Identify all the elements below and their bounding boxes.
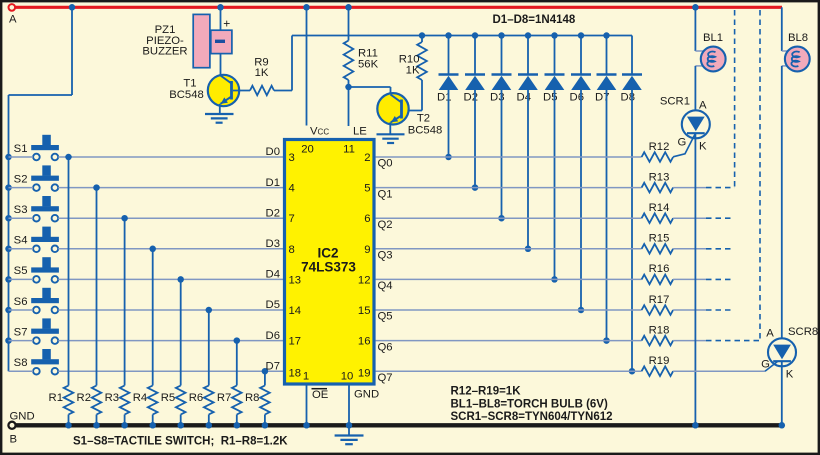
svg-text:VCC: VCC bbox=[310, 126, 329, 138]
svg-text:D5: D5 bbox=[266, 299, 280, 311]
wire buzzer to T1 collector bbox=[220, 54, 222, 75]
svg-text:S1: S1 bbox=[14, 143, 28, 155]
wire bus to D4 bbox=[527, 36, 529, 75]
svg-text:6: 6 bbox=[364, 213, 370, 225]
wire S3 to R3 bbox=[124, 218, 126, 385]
IC2 74LS373 body bbox=[285, 140, 375, 385]
junction S3 pull-down bbox=[121, 215, 128, 222]
wire Q1 to R13 bbox=[376, 187, 642, 189]
svg-text:D1–D8=1N4148: D1–D8=1N4148 bbox=[493, 14, 576, 26]
wire node to T2 collector bbox=[349, 86, 391, 88]
wire bus to D1 bbox=[448, 36, 450, 75]
junction S1 pull-down bbox=[65, 154, 72, 161]
resistor R5 bbox=[176, 386, 186, 415]
svg-text:D3: D3 bbox=[266, 238, 280, 250]
switch S1 bbox=[42, 135, 51, 145]
svg-text:BC548: BC548 bbox=[408, 124, 443, 136]
wire common to S1 bbox=[9, 156, 34, 158]
svg-text:S1–S8=TACTILE SWITCH; R1–R8=1: S1–S8=TACTILE SWITCH; R1–R8=1.2K bbox=[73, 435, 288, 447]
junction D4 anode bbox=[525, 32, 532, 39]
wire bus to D5 bbox=[554, 36, 556, 75]
svg-text:Q1: Q1 bbox=[378, 188, 393, 200]
svg-text:R15: R15 bbox=[649, 233, 670, 245]
svg-text:1K: 1K bbox=[255, 67, 269, 79]
wire R1 to ground bus bbox=[68, 415, 70, 426]
junction switch common row 2 bbox=[5, 184, 12, 191]
wire S8 to R8 bbox=[264, 371, 266, 385]
wire S5 to D4 pin bbox=[58, 278, 283, 280]
svg-text:19: 19 bbox=[358, 368, 371, 380]
wire rail to Vcc pin bbox=[306, 7, 308, 125]
svg-text:9: 9 bbox=[364, 244, 370, 256]
ground IC2 bbox=[348, 425, 350, 435]
resistor R6 bbox=[204, 386, 214, 415]
junction D2 row bbox=[472, 184, 479, 191]
svg-text:BC548: BC548 bbox=[169, 89, 204, 101]
wire R8 to ground bus bbox=[264, 415, 266, 426]
svg-text:IC2: IC2 bbox=[317, 246, 338, 261]
resistor R12 bbox=[642, 152, 674, 162]
wire R5 to ground bus bbox=[180, 415, 182, 426]
wire R4 to ground bus bbox=[152, 415, 154, 426]
wire S6 to D5 pin bbox=[58, 309, 283, 311]
resistor R14 bbox=[642, 213, 674, 223]
svg-text:SCR1: SCR1 bbox=[660, 96, 690, 108]
resistor R8 bbox=[260, 386, 270, 415]
switch S6 bbox=[42, 288, 51, 298]
wire A-rail to switch common bbox=[71, 7, 73, 95]
switch S7 bbox=[42, 318, 51, 328]
wire bus to D6 bbox=[580, 36, 582, 75]
svg-text:Q5: Q5 bbox=[378, 311, 393, 323]
diode D3 bbox=[492, 73, 512, 75]
resistor R10 bbox=[417, 42, 427, 80]
wire Q6 to R18 bbox=[376, 340, 642, 342]
junction switch common row 6 bbox=[5, 307, 12, 314]
wire GND pin to ground bus bbox=[348, 384, 350, 425]
wire R2 to ground bus bbox=[96, 415, 98, 426]
svg-text:11: 11 bbox=[343, 143, 355, 155]
SCR8 bbox=[768, 338, 796, 366]
svg-text:Q3: Q3 bbox=[378, 250, 393, 262]
diode D2 bbox=[465, 73, 485, 75]
wire S5 to R5 bbox=[180, 279, 182, 385]
wire T2 emitter to ground bbox=[389, 122, 391, 134]
junction D6 row bbox=[578, 307, 585, 314]
svg-text:S3: S3 bbox=[14, 204, 28, 216]
dashed column BL7 bbox=[759, 10, 761, 341]
transistor T2 bbox=[377, 93, 408, 124]
svg-text:13: 13 bbox=[289, 274, 302, 286]
resistor R1 bbox=[64, 386, 74, 415]
wire R14 stub bbox=[673, 217, 706, 219]
wire D4 to Q3 row bbox=[527, 90, 529, 249]
wire R7 to ground bus bbox=[236, 415, 238, 426]
svg-text:Q6: Q6 bbox=[378, 341, 393, 353]
wire common to S4 bbox=[9, 248, 34, 250]
wire S3 to D2 pin bbox=[58, 217, 283, 219]
wire S4 to D3 pin bbox=[58, 248, 283, 250]
ground T2 bbox=[377, 133, 405, 135]
svg-text:1: 1 bbox=[303, 371, 309, 383]
junction S4 pull-down bbox=[149, 246, 156, 253]
wire Q5 to R17 bbox=[376, 309, 642, 311]
switch S5 bbox=[42, 257, 51, 267]
wire R18 stub bbox=[673, 340, 706, 342]
diode D1 bbox=[439, 73, 459, 75]
resistor R13 bbox=[642, 183, 674, 193]
svg-text:BUZZER: BUZZER bbox=[142, 46, 187, 58]
svg-text:SCR8: SCR8 bbox=[788, 326, 818, 338]
SCR1 bbox=[682, 110, 710, 138]
wire common to S7 bbox=[9, 340, 34, 342]
junction D7 anode bbox=[603, 32, 610, 39]
wire R17 stub bbox=[673, 309, 706, 311]
wire Q3 to R15 bbox=[376, 248, 642, 250]
svg-text:17: 17 bbox=[289, 336, 302, 348]
diode anode bus bbox=[292, 35, 632, 37]
svg-text:14: 14 bbox=[289, 305, 302, 317]
junction S6 pull-down bbox=[206, 307, 213, 314]
diode D4 bbox=[518, 73, 538, 75]
buzzer PZ1 bbox=[193, 14, 210, 67]
wire D6 to Q5 row bbox=[580, 90, 582, 310]
wire SCR1 gate bbox=[673, 134, 695, 157]
junction D4 row bbox=[525, 246, 532, 253]
svg-text:D0: D0 bbox=[266, 146, 280, 158]
svg-text:S6: S6 bbox=[14, 296, 28, 308]
svg-text:D2: D2 bbox=[266, 207, 280, 219]
transistor T1 bbox=[208, 75, 239, 106]
wire bus to D2 bbox=[474, 36, 476, 75]
wire S2 to R2 bbox=[96, 188, 98, 386]
wire T1 base to R9 bbox=[233, 90, 250, 92]
svg-text:7: 7 bbox=[289, 213, 295, 225]
wire BL8 to SCR8 bbox=[781, 66, 783, 345]
resistor R2 bbox=[92, 386, 102, 415]
wire common to S5 bbox=[9, 278, 34, 280]
junction D5 anode bbox=[551, 32, 558, 39]
svg-text:3: 3 bbox=[289, 152, 295, 164]
svg-text:+: + bbox=[223, 16, 230, 30]
wire D7 to Q6 row bbox=[606, 90, 608, 341]
ground bus (black) bbox=[14, 423, 783, 427]
wire common to S8 bbox=[9, 370, 34, 372]
switch S8 bbox=[42, 349, 51, 359]
wire T1 emitter to ground bbox=[219, 104, 221, 114]
wire rail to BL1 bbox=[694, 7, 696, 51]
svg-text:15: 15 bbox=[358, 305, 371, 317]
junction D3 row bbox=[498, 215, 505, 222]
junction switch common row 3 bbox=[5, 215, 12, 222]
svg-text:A: A bbox=[766, 328, 774, 340]
bulb BL1 bbox=[695, 50, 703, 52]
wire BL1 to SCR1 bbox=[694, 66, 696, 117]
wire R15 stub bbox=[673, 248, 706, 250]
svg-text:4: 4 bbox=[289, 183, 295, 195]
svg-text:S4: S4 bbox=[14, 235, 28, 247]
switch S2 bbox=[42, 165, 51, 175]
svg-text:56K: 56K bbox=[358, 58, 379, 70]
wire rail to R11 bbox=[348, 7, 350, 40]
svg-text:LE: LE bbox=[353, 126, 367, 138]
svg-text:R14: R14 bbox=[649, 202, 670, 214]
svg-text:R12: R12 bbox=[649, 141, 670, 153]
terminal A bbox=[9, 4, 16, 11]
svg-text:8: 8 bbox=[289, 244, 295, 256]
svg-text:R12–R19=1K: R12–R19=1K bbox=[451, 386, 522, 398]
wire S8 to D7 pin bbox=[58, 370, 283, 372]
svg-text:SCR1–SCR8=TYN604/TYN612: SCR1–SCR8=TYN604/TYN612 bbox=[451, 411, 613, 423]
svg-text:Q2: Q2 bbox=[378, 219, 393, 231]
svg-text:D1: D1 bbox=[266, 177, 280, 189]
diode D5 bbox=[545, 73, 565, 75]
junction D6 anode bbox=[578, 32, 585, 39]
svg-text:5: 5 bbox=[364, 183, 370, 195]
svg-text:S8: S8 bbox=[14, 357, 28, 369]
junction switch common row 4 bbox=[5, 246, 12, 253]
switch S4 bbox=[42, 227, 51, 237]
wire R16 stub bbox=[673, 278, 706, 280]
junction R10 top bbox=[419, 32, 426, 39]
svg-text:R3: R3 bbox=[105, 392, 119, 404]
svg-text:T2: T2 bbox=[417, 113, 430, 125]
wire Q7 to R19 bbox=[376, 370, 642, 372]
wire S1 to D0 pin bbox=[58, 156, 283, 158]
svg-text:BL1–BL8=TORCH BULB (6V): BL1–BL8=TORCH BULB (6V) bbox=[451, 398, 608, 410]
wire D2 to Q1 row bbox=[474, 90, 476, 188]
wire bus to D8 bbox=[631, 36, 633, 75]
svg-text:1K: 1K bbox=[406, 64, 420, 76]
wire R19 to SCR8 gate bbox=[673, 370, 765, 372]
wire R10 to T2 base bbox=[421, 80, 423, 111]
junction S2 pull-down bbox=[93, 184, 100, 191]
junction D7 row bbox=[603, 337, 610, 344]
wire S7 to R7 bbox=[236, 341, 238, 386]
svg-text:S2: S2 bbox=[14, 173, 28, 185]
wire rail to BL8 bbox=[781, 7, 783, 51]
junction D8 row bbox=[629, 368, 636, 375]
svg-text:A: A bbox=[9, 14, 17, 26]
wire OE pin to ground bus bbox=[306, 384, 308, 425]
svg-text:S7: S7 bbox=[14, 326, 28, 338]
resistor R16 bbox=[642, 275, 674, 285]
wire R9 to diode bus bbox=[274, 90, 292, 92]
junction switch common row 5 bbox=[5, 276, 12, 283]
wire S4 to R4 bbox=[152, 249, 154, 386]
svg-text:R4: R4 bbox=[133, 392, 147, 404]
svg-text:74LS373: 74LS373 bbox=[301, 260, 356, 275]
wire S1 to R1 bbox=[68, 157, 70, 386]
svg-text:R7: R7 bbox=[217, 392, 231, 404]
wire S7 to D6 pin bbox=[58, 340, 283, 342]
resistor R17 bbox=[642, 305, 674, 315]
svg-text:T1: T1 bbox=[183, 78, 196, 90]
svg-text:GND: GND bbox=[354, 389, 379, 401]
dashed column BL2 bbox=[734, 10, 736, 188]
svg-text:B: B bbox=[10, 434, 18, 446]
wire S6 to R6 bbox=[208, 310, 210, 386]
junction D3 anode bbox=[498, 32, 505, 39]
bulb BL8 bbox=[782, 50, 788, 52]
svg-text:BL8: BL8 bbox=[788, 32, 808, 44]
wire R11 to LE pin bbox=[348, 80, 350, 126]
resistor R19 bbox=[642, 366, 674, 376]
wire R6 to ground bus bbox=[208, 415, 210, 426]
junction D1 row bbox=[445, 154, 452, 161]
junction S8 pull-down bbox=[262, 368, 269, 375]
svg-text:18: 18 bbox=[289, 368, 302, 380]
wire common to S2 bbox=[9, 187, 34, 189]
junction S5 pull-down bbox=[177, 276, 184, 283]
svg-text:K: K bbox=[786, 369, 794, 381]
svg-text:R17: R17 bbox=[649, 294, 670, 306]
junction switch common row 7 bbox=[5, 337, 12, 344]
wire D5 to Q4 row bbox=[554, 90, 556, 279]
ground T1 bbox=[205, 113, 234, 115]
junction D5 row bbox=[551, 276, 558, 283]
resistor R3 bbox=[120, 386, 130, 415]
svg-text:D6: D6 bbox=[266, 330, 280, 342]
wire D8 to Q7 row bbox=[631, 90, 633, 371]
svg-text:R13: R13 bbox=[649, 171, 670, 183]
wire R13 stub bbox=[673, 187, 706, 189]
svg-text:R8: R8 bbox=[245, 392, 259, 404]
svg-text:R5: R5 bbox=[161, 392, 175, 404]
svg-text:S5: S5 bbox=[14, 265, 28, 277]
positive supply rail (red) bbox=[15, 6, 782, 9]
svg-text:R6: R6 bbox=[189, 392, 203, 404]
wire Q0 to R12 bbox=[376, 156, 642, 158]
svg-text:R1: R1 bbox=[49, 392, 63, 404]
svg-text:K: K bbox=[699, 141, 707, 153]
svg-text:OE: OE bbox=[312, 389, 329, 401]
wire SCR1 cathode to ground bus bbox=[694, 133, 696, 425]
wire Q2 to R14 bbox=[376, 217, 642, 219]
svg-text:R2: R2 bbox=[77, 392, 91, 404]
svg-text:Q7: Q7 bbox=[378, 372, 393, 384]
terminal B bbox=[8, 422, 15, 429]
resistor R15 bbox=[642, 244, 674, 254]
resistor R7 bbox=[232, 386, 242, 415]
svg-text:R19: R19 bbox=[649, 355, 670, 367]
junction D1 anode bbox=[445, 32, 452, 39]
svg-text:GND: GND bbox=[10, 411, 35, 423]
wire Q4 to R16 bbox=[376, 278, 642, 280]
diode D7 bbox=[597, 73, 617, 75]
wire D1 to Q0 row bbox=[448, 90, 450, 157]
wire S2 to D1 pin bbox=[58, 187, 283, 189]
svg-text:20: 20 bbox=[301, 143, 314, 155]
svg-text:Q4: Q4 bbox=[378, 280, 393, 292]
junction S7 pull-down bbox=[234, 337, 241, 344]
node R11/T2 collector bbox=[345, 84, 352, 91]
resistor R11 bbox=[344, 41, 354, 81]
svg-text:D4: D4 bbox=[266, 269, 280, 281]
wire common to S3 bbox=[9, 217, 34, 219]
diode D6 bbox=[571, 73, 591, 75]
wire R3 to ground bus bbox=[124, 415, 126, 426]
svg-text:D7: D7 bbox=[266, 360, 280, 372]
svg-text:G: G bbox=[678, 137, 687, 149]
junction D2 anode bbox=[472, 32, 479, 39]
svg-text:BL1: BL1 bbox=[703, 32, 723, 44]
resistor R18 bbox=[642, 336, 674, 346]
svg-text:10: 10 bbox=[341, 371, 354, 383]
diode D8 bbox=[622, 73, 642, 75]
wire D3 to Q2 row bbox=[501, 90, 503, 218]
wire rail to buzzer bbox=[220, 7, 222, 30]
resistor R4 bbox=[148, 386, 158, 415]
wire common to S6 bbox=[9, 309, 34, 311]
wire bus to D7 bbox=[606, 36, 608, 75]
svg-text:R18: R18 bbox=[649, 324, 670, 336]
junction switch common row 1 bbox=[5, 154, 12, 161]
wire bus to R10 bbox=[421, 36, 423, 43]
svg-text:16: 16 bbox=[358, 336, 371, 348]
wire bus to D3 bbox=[501, 36, 503, 75]
svg-text:R16: R16 bbox=[649, 263, 670, 275]
svg-text:A: A bbox=[699, 100, 707, 112]
wire SCR8 cathode to ground bus bbox=[781, 361, 783, 425]
switch S3 bbox=[42, 196, 51, 206]
svg-text:Q0: Q0 bbox=[378, 158, 393, 170]
svg-text:2: 2 bbox=[364, 152, 370, 164]
svg-text:12: 12 bbox=[358, 274, 371, 286]
resistor R9 bbox=[250, 86, 274, 96]
